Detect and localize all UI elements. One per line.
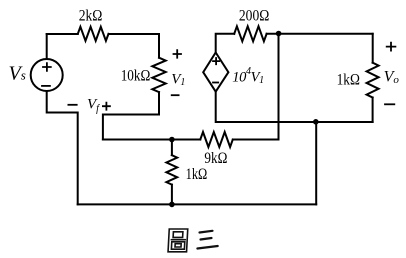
wire 10k top lead	[158, 34, 160, 58]
wire Vs top lead	[46, 34, 48, 59]
caption char three	[197, 231, 217, 249]
wire top left rail	[47, 33, 78, 35]
wire dep source bottom lead	[216, 92, 373, 122]
wire 9k to riser	[233, 34, 279, 140]
resistor R 9k zigzag	[200, 132, 233, 147]
wire 10k bottom lead	[103, 92, 159, 139]
resistor R 1k mid zigzag	[166, 155, 177, 185]
wire Vo bottom lead	[372, 98, 374, 123]
svg-text:1kΩ: 1kΩ	[186, 166, 208, 183]
svg-text:200Ω: 200Ω	[239, 8, 269, 25]
wire 1k mid bottom lead	[171, 185, 173, 205]
wire Vo top lead	[372, 34, 374, 63]
svg-text:Vf: Vf	[87, 97, 100, 115]
svg-text:Vo: Vo	[384, 69, 400, 87]
minus sign Vo	[384, 103, 395, 105]
minus sign inside diamond	[212, 82, 219, 84]
svg-text:9kΩ: 9kΩ	[204, 150, 227, 167]
svg-text:10kΩ: 10kΩ	[121, 68, 151, 85]
svg-text:2kΩ: 2kΩ	[79, 8, 103, 25]
node dot junction bottom-rail	[169, 202, 175, 208]
plus sign V1	[173, 49, 182, 58]
plus sign inside Vs	[42, 62, 52, 71]
wire node A horizontal	[103, 139, 200, 141]
plus sign Vf	[102, 102, 111, 111]
plus sign Vo	[386, 42, 397, 52]
source Vs circle	[31, 59, 63, 91]
resistor R 10k zigzag	[152, 58, 165, 92]
wire 1k mid top lead	[171, 140, 173, 156]
wire bottom rail	[78, 203, 317, 205]
wire top right rail	[267, 33, 373, 35]
resistor R 2k zigzag	[78, 27, 109, 41]
resistor R 200 zigzag	[234, 26, 266, 41]
node dot junction 200ohm	[276, 31, 282, 37]
node dot junction bottom-wire	[313, 119, 319, 125]
svg-text:V1: V1	[171, 72, 185, 89]
wire dep source top lead	[216, 34, 235, 53]
minus sign inside Vs	[41, 85, 51, 87]
minus sign V1	[171, 94, 180, 96]
minus sign Vf	[68, 104, 78, 106]
svg-text:Vs: Vs	[9, 63, 26, 85]
dep source U1 diamond	[203, 53, 228, 92]
resistor R 1k Vo zigzag	[367, 63, 379, 98]
svg-text:104V1: 104V1	[232, 66, 263, 86]
wire top rail to corner	[109, 33, 160, 35]
caption figure-three char TU	[168, 229, 188, 252]
plus sign inside diamond	[212, 57, 220, 65]
wire Vs bottom lead	[47, 91, 78, 204]
wire right riser	[315, 122, 317, 205]
svg-text:1kΩ: 1kΩ	[337, 71, 360, 88]
node dot junction 9k-1k	[169, 137, 175, 143]
